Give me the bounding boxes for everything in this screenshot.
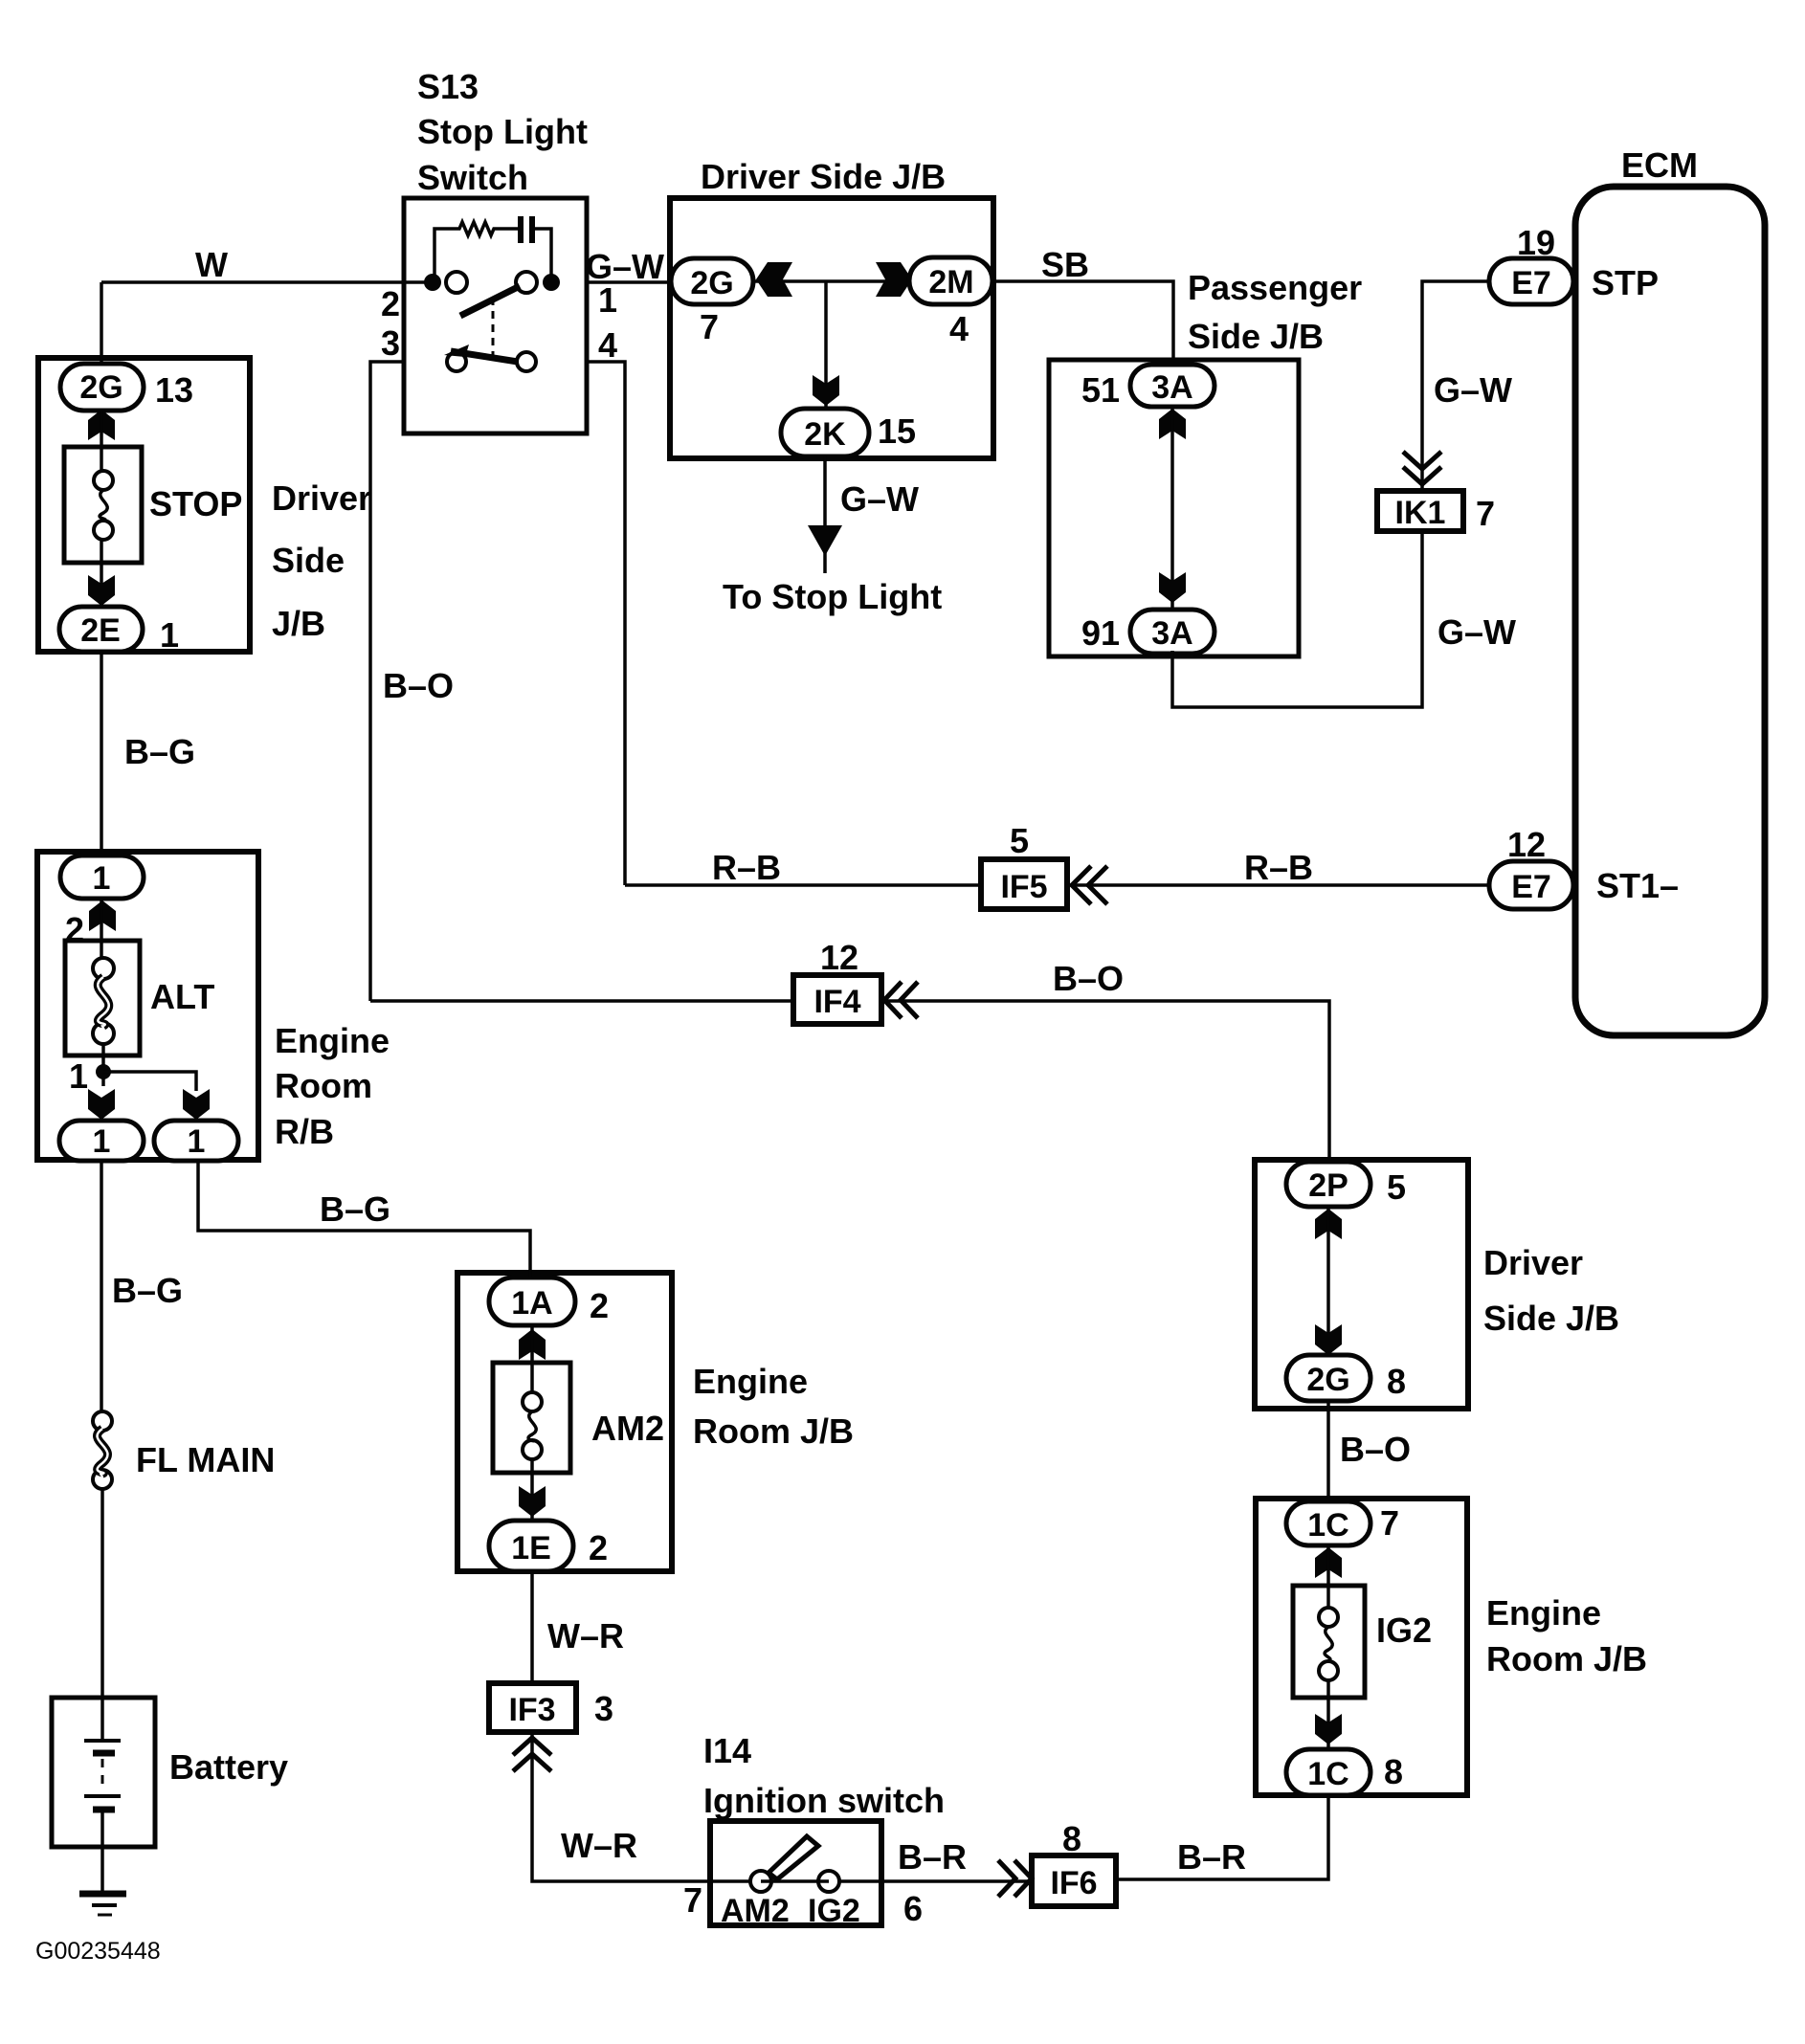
arrow down to 2K (813, 375, 839, 406)
svg-text:R/B: R/B (275, 1112, 334, 1151)
junction box Engine Room J/B (AM2) (457, 1273, 672, 1571)
svg-text:ST1–: ST1– (1596, 866, 1679, 905)
svg-text:E7: E7 (1511, 869, 1551, 905)
wire 1C(8) down to B-R corner (1116, 1795, 1328, 1879)
svg-text:I14: I14 (703, 1731, 751, 1770)
svg-text:Driver: Driver (1483, 1243, 1583, 1282)
ignition switch I14 box (710, 1821, 881, 1925)
wire R-B E7 to IF5 (1067, 883, 1489, 887)
svg-text:Driver Side J/B: Driver Side J/B (701, 157, 946, 196)
wire oval1 to ALT (100, 899, 103, 958)
chevrons into IF4 (884, 982, 902, 1018)
svg-text:G–W: G–W (1434, 370, 1512, 410)
svg-text:3A: 3A (1151, 615, 1192, 652)
svg-text:7: 7 (1380, 1503, 1399, 1543)
svg-text:12: 12 (1507, 825, 1546, 864)
svg-text:ECM: ECM (1621, 145, 1698, 185)
connector box IF3 (489, 1683, 576, 1732)
connector oval 1E (2) (489, 1521, 573, 1571)
STOP J/B box (Driver Side J/B) (38, 358, 250, 652)
arrow up to 2G (88, 410, 115, 440)
contact IG2 (818, 1871, 839, 1892)
connector oval 2G (8) (1286, 1355, 1370, 1401)
wire fuse AM2 to 1E (530, 1459, 534, 1523)
connector box IF5 (981, 859, 1067, 909)
connector oval 1A (2) (489, 1277, 575, 1325)
svg-text:8: 8 (1384, 1752, 1403, 1791)
svg-text:3A: 3A (1151, 369, 1192, 406)
chevrons into IF5 (1072, 866, 1091, 904)
svg-text:1: 1 (188, 1123, 206, 1160)
capacitor (switch internal) (518, 216, 524, 243)
junction box Engine Room J/B (right) (1256, 1499, 1467, 1795)
svg-text:Stop Light: Stop Light (417, 112, 588, 151)
svg-text:R–B: R–B (712, 848, 781, 887)
svg-text:4: 4 (598, 325, 617, 365)
svg-text:4: 4 (949, 309, 969, 348)
svg-text:Passenger: Passenger (1188, 268, 1362, 307)
svg-text:1E: 1E (511, 1530, 551, 1566)
svg-text:E7: E7 (1511, 265, 1551, 301)
arrow down to 1E (519, 1486, 546, 1517)
arrow up to 3A top (1159, 409, 1186, 439)
mechanical link dashed (492, 298, 495, 358)
svg-text:IG2: IG2 (808, 1893, 860, 1929)
contact AM2 (750, 1871, 771, 1892)
wire B-R ignition to IF6 (839, 1879, 1032, 1883)
svg-text:J/B: J/B (272, 604, 325, 643)
svg-text:6: 6 (903, 1889, 923, 1928)
connector oval 1 (bottom right) (154, 1121, 238, 1161)
wire fuse to 1C bottom (1326, 1680, 1330, 1751)
connector oval 3A (51) (1130, 365, 1214, 407)
wire W-R IF3 to 1E (530, 1571, 534, 1683)
battery box (52, 1698, 155, 1847)
arrow down to 1C bottom (1315, 1714, 1342, 1744)
svg-text:2G: 2G (79, 369, 123, 406)
svg-text:STP: STP (1592, 263, 1659, 302)
arrow down to 2E (88, 575, 115, 606)
fuse IG2 rect (1293, 1586, 1365, 1698)
connector oval 3A (91) (1130, 610, 1214, 654)
switch S13 box (404, 198, 587, 433)
svg-text:3: 3 (381, 323, 400, 363)
switch blade upper (460, 286, 520, 316)
svg-text:W–R: W–R (547, 1616, 624, 1655)
svg-text:G–W: G–W (840, 479, 919, 519)
connector oval 1 (bottom left) (59, 1121, 144, 1161)
fuse ALT rect (65, 941, 140, 1055)
wire branch to right oval (103, 1072, 196, 1091)
svg-text:AM2: AM2 (721, 1893, 790, 1929)
connector oval E7 (ST1-) (1489, 861, 1573, 909)
wire W-R ignition to IF3 (532, 1732, 750, 1881)
wire T-branch down to 2K (824, 281, 828, 411)
wire pin4 to R-B vertical (587, 362, 625, 885)
switch blade lower (451, 351, 518, 362)
wire 2G to fuse (100, 411, 103, 471)
svg-text:IK1: IK1 (1395, 495, 1446, 531)
wire 2G to 2M internal (753, 279, 909, 283)
svg-text:2: 2 (589, 1528, 608, 1567)
wire R-B IF5 to switch pin4 (625, 883, 981, 887)
wire B-O IF4 to Driver Side J/B 2P (881, 1001, 1329, 1164)
svg-text:R–B: R–B (1244, 848, 1313, 887)
svg-text:1: 1 (93, 860, 111, 897)
junction box Engine Room R/B (37, 852, 258, 1160)
connector oval 2E (1) (59, 607, 143, 652)
connector oval 1 (top) (60, 855, 144, 899)
wire 2P to 2G internal (1326, 1207, 1330, 1359)
junction dot (96, 1064, 111, 1079)
arrow down to 2G (1315, 1324, 1342, 1355)
svg-text:B–R: B–R (1177, 1837, 1246, 1877)
svg-text:W: W (195, 245, 228, 284)
battery plate long bottom (84, 1794, 121, 1798)
arrow To Stop Light (808, 525, 842, 556)
wire FL MAIN to battery (100, 1489, 104, 1742)
wire G-W switch to 2G (587, 280, 671, 284)
svg-text:B–G: B–G (112, 1271, 183, 1310)
svg-text:15: 15 (878, 411, 916, 451)
arrow up to 1A (519, 1329, 546, 1360)
connector oval 2G (7) (671, 258, 753, 304)
svg-text:2G: 2G (1306, 1362, 1349, 1398)
chevrons into IF6 (1014, 1860, 1032, 1897)
svg-text:2: 2 (381, 284, 400, 323)
svg-text:Ignition switch: Ignition switch (703, 1781, 945, 1820)
svg-text:1A: 1A (511, 1285, 552, 1322)
arrow up to 2P (1315, 1209, 1342, 1239)
junction box Driver Side J/B (lower) (1255, 1160, 1468, 1409)
svg-text:2P: 2P (1308, 1167, 1348, 1204)
wire B-O 2G to 1C (1326, 1401, 1330, 1504)
contact circle upper-right (516, 272, 537, 293)
wire pin3 to B-O vertical (370, 362, 404, 1001)
svg-text:3: 3 (594, 1689, 613, 1728)
wire B-G left oval to FL MAIN (100, 1161, 103, 1412)
svg-text:IF5: IF5 (1000, 869, 1047, 905)
svg-text:Engine: Engine (1486, 1593, 1601, 1633)
svg-text:7: 7 (683, 1880, 702, 1920)
wire E7 STP to IK1 (1422, 281, 1489, 491)
arrow up to 1C top (1315, 1547, 1342, 1578)
svg-text:1: 1 (69, 1056, 88, 1096)
svg-text:Driver: Driver (272, 478, 371, 518)
svg-text:1C: 1C (1307, 1507, 1348, 1544)
wire B-G R/B to 1A (198, 1160, 530, 1277)
junction dot pin2 (424, 274, 441, 291)
svg-text:Engine: Engine (693, 1362, 808, 1401)
contact circle upper-left (446, 272, 467, 293)
svg-text:To Stop Light: To Stop Light (723, 577, 942, 616)
wire B-O horizontal to IF4 (370, 999, 793, 1003)
connector oval E7 (STP) (1489, 258, 1573, 304)
svg-text:Side J/B: Side J/B (1483, 1299, 1619, 1338)
svg-text:B–G: B–G (124, 732, 195, 771)
ignition key lever (769, 1836, 818, 1879)
svg-text:7: 7 (700, 307, 719, 346)
arrow down to 3A bottom (1159, 572, 1186, 603)
svg-text:91: 91 (1081, 613, 1120, 653)
svg-text:13: 13 (155, 370, 193, 410)
svg-text:B–O: B–O (1340, 1430, 1411, 1469)
connector oval 2K (15) (781, 409, 869, 456)
svg-text:G–W: G–W (1437, 612, 1516, 652)
blade arrow tip (444, 344, 469, 357)
wire W down to 2G oval (100, 282, 103, 368)
arrow up to oval 1 (89, 900, 116, 931)
svg-text:W–R: W–R (561, 1826, 637, 1865)
svg-text:2: 2 (65, 910, 84, 949)
svg-text:2G: 2G (690, 265, 733, 301)
svg-text:2K: 2K (804, 416, 846, 453)
svg-text:1: 1 (160, 615, 179, 655)
arrow left toward 2G (756, 262, 792, 297)
svg-text:5: 5 (1010, 821, 1029, 860)
connector oval 1C (8) (1286, 1749, 1370, 1795)
fuse STOP rect (64, 447, 142, 563)
svg-text:IF3: IF3 (508, 1692, 555, 1728)
wire resistor to capacitor (497, 227, 518, 231)
svg-text:B–O: B–O (1053, 959, 1124, 998)
svg-text:G00235448: G00235448 (35, 1938, 161, 1965)
chevrons into IK1 (1403, 452, 1441, 469)
wire 1C to fuse IG2 (1326, 1545, 1330, 1608)
battery plate short top (93, 1750, 115, 1757)
svg-text:1C: 1C (1307, 1756, 1348, 1792)
svg-text:8: 8 (1062, 1819, 1081, 1858)
svg-text:8: 8 (1387, 1362, 1406, 1401)
svg-text:Side: Side (272, 541, 345, 580)
wire 1A to fuse AM2 (530, 1325, 534, 1392)
svg-text:S13: S13 (417, 67, 479, 106)
wire SB 2M to Passenger J/B (992, 281, 1173, 368)
fusible link ALT element (93, 958, 114, 979)
wire 2K to stop light arrow (823, 456, 827, 573)
junction box Passenger Side J/B (1049, 360, 1299, 656)
junction box Driver Side J/B (top) (670, 198, 993, 458)
svg-text:IF4: IF4 (813, 984, 860, 1020)
svg-text:B–G: B–G (320, 1189, 390, 1229)
svg-text:IG2: IG2 (1376, 1611, 1432, 1650)
svg-text:B–O: B–O (383, 666, 454, 705)
svg-text:Room J/B: Room J/B (693, 1411, 854, 1451)
svg-text:Switch: Switch (417, 158, 528, 197)
svg-text:Room J/B: Room J/B (1486, 1639, 1647, 1678)
wire capacitor to pin1 stub (535, 229, 551, 282)
svg-text:ALT: ALT (150, 977, 214, 1016)
svg-text:Battery: Battery (169, 1747, 288, 1787)
connector oval 2P (5) (1286, 1162, 1370, 1207)
svg-text:STOP: STOP (149, 484, 242, 523)
wire IG2 to chevrons internal (761, 1879, 829, 1883)
svg-text:2E: 2E (80, 612, 121, 649)
ground symbol (79, 1891, 126, 1898)
svg-text:AM2: AM2 (591, 1409, 664, 1448)
connector oval 2M (4) (909, 257, 992, 304)
wire fuse to 2E (100, 540, 103, 612)
svg-text:51: 51 (1081, 370, 1120, 410)
svg-text:2: 2 (590, 1286, 609, 1325)
svg-text:1: 1 (93, 1123, 111, 1160)
svg-text:12: 12 (820, 938, 858, 977)
connector oval 2G (13) (60, 364, 144, 411)
svg-text:2M: 2M (928, 264, 973, 300)
contact circle lower-left (447, 352, 466, 371)
wire 3A to 3A internal (1170, 407, 1174, 608)
svg-text:7: 7 (1476, 494, 1495, 533)
svg-text:Engine: Engine (275, 1021, 390, 1060)
fuse IG2 element (1319, 1608, 1338, 1627)
svg-text:Side J/B: Side J/B (1188, 317, 1324, 356)
arrow right toward 2M (876, 262, 912, 297)
svg-text:1: 1 (598, 280, 617, 320)
connector box IF6 (1032, 1855, 1116, 1906)
chevrons into IF3 (513, 1738, 551, 1755)
svg-text:5: 5 (1387, 1167, 1406, 1207)
contact circle lower-right (517, 352, 536, 371)
wire ALT to junction (101, 1044, 105, 1086)
svg-text:FL MAIN: FL MAIN (136, 1440, 275, 1479)
fuse AM2 rect (493, 1363, 570, 1473)
wire 3A(91) to IK1 (1172, 531, 1422, 707)
svg-text:Room: Room (275, 1066, 372, 1105)
connector oval 1C (7) (1286, 1501, 1370, 1545)
arrow down right oval (183, 1089, 210, 1120)
connector box IK1 (1377, 491, 1463, 531)
resistor (switch internal) (457, 222, 497, 235)
fuse STOP element (94, 471, 113, 490)
connector box IF4 (793, 975, 881, 1024)
wire battery negative to ground (100, 1811, 104, 1893)
svg-text:IF6: IF6 (1050, 1865, 1097, 1901)
svg-text:SB: SB (1041, 245, 1089, 284)
fuse AM2 element (523, 1392, 542, 1411)
svg-text:B–R: B–R (898, 1837, 967, 1877)
battery dashed link (101, 1759, 104, 1791)
battery plate short bottom (93, 1807, 115, 1813)
fusible link FL MAIN (93, 1411, 112, 1431)
junction dot pin1 (543, 274, 560, 291)
ECM box (1575, 187, 1765, 1035)
svg-text:G–W: G–W (586, 247, 664, 286)
wire B-G 2E to Engine Room R/B (100, 652, 103, 852)
wire stub pin2 to RC network (435, 229, 457, 282)
arrow down left oval (88, 1089, 115, 1120)
battery plate long top (84, 1739, 121, 1743)
wire W horizontal (101, 280, 433, 284)
